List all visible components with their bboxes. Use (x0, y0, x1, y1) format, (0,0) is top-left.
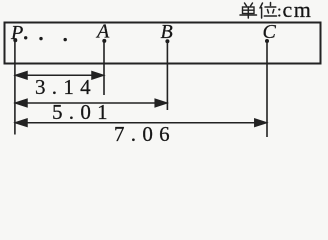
svg-text:7.06: 7.06 (114, 122, 176, 145)
svg-text:C: C (263, 21, 277, 43)
svg-text:5.01: 5.01 (52, 100, 114, 124)
svg-text:cm: cm (283, 0, 313, 22)
svg-text:A: A (95, 21, 110, 43)
svg-text::: : (277, 2, 282, 21)
svg-text:3.14: 3.14 (35, 75, 97, 99)
